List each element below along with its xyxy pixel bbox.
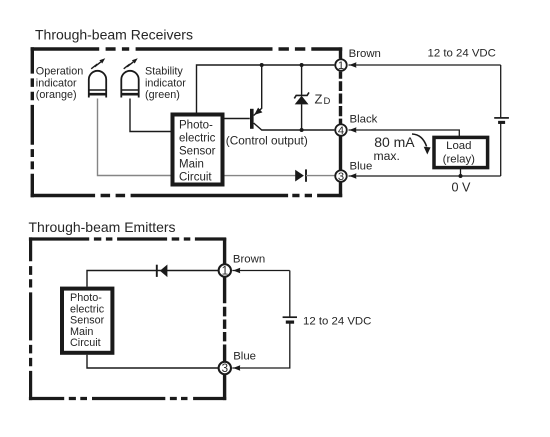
transistor collector lead (254, 123, 335, 130)
svg-text:12 to 24 VDC: 12 to 24 VDC (303, 316, 371, 328)
svg-text:max.: max. (374, 149, 400, 163)
receiver enclosure bottom border (dash-dot-dot) (31, 194, 343, 197)
svg-text:3: 3 (222, 362, 228, 375)
emitter enclosure bottom border (dash-dot-dot) (29, 397, 226, 400)
photoelectric sensor main circuit box (receiver) (173, 115, 223, 185)
receiver enclosure right border segment between terminals 4 and 3 (339, 136, 342, 170)
diode D2 (emitter) triangle pointing left (160, 265, 168, 278)
LED lamp: stability indicator (green) (121, 58, 140, 97)
zener diode ZD triangle (295, 96, 309, 105)
svg-text:0 V: 0 V (452, 181, 472, 195)
terminal 3 (Blue) (335, 170, 347, 182)
photoelectric sensor main circuit box (emitter) (62, 289, 112, 353)
diode D2 (emitter) cathode bar (156, 265, 158, 277)
svg-text:(relay): (relay) (443, 154, 475, 166)
wire from stability indicator down and right to main circuit (130, 99, 171, 132)
load (relay) box (434, 137, 488, 167)
svg-text:(green): (green) (145, 89, 180, 101)
zener diode ZD cathode bar (z-shape) (294, 92, 309, 98)
junction dot at zener bottom (300, 128, 304, 132)
wire from terminal 4 to load with arrowhead (349, 130, 460, 137)
terminal 3 emitter (Blue) (219, 362, 231, 374)
svg-text:Through-beam Emitters: Through-beam Emitters (29, 219, 176, 235)
svg-text:(Control output): (Control output) (226, 134, 308, 148)
curved arrow for load current (412, 134, 427, 147)
svg-text:electric: electric (70, 303, 105, 315)
zener diode ZD vertical wires (301, 65, 303, 130)
wire from main circuit top up and right to terminal 1 rail (197, 65, 335, 113)
svg-text:1: 1 (222, 265, 228, 278)
emitter enclosure top border (dash-dot-dot) (29, 237, 226, 240)
junction dot at zener top (300, 63, 304, 67)
svg-text:Brown: Brown (349, 48, 381, 60)
svg-text:D: D (324, 96, 331, 107)
right supply rail down to battery (500, 65, 502, 118)
terminal 4 (Black) (335, 124, 347, 136)
receiver enclosure right border segment below terminal 3 (339, 183, 342, 198)
svg-text:3: 3 (338, 171, 344, 183)
svg-text:Operation: Operation (36, 66, 83, 78)
LED lamp: operation indicator (orange) (88, 58, 107, 97)
battery B2 (emitter) negative plate (286, 321, 294, 324)
battery B2 lower wire to terminal 3 (232, 322, 289, 368)
svg-text:Stability: Stability (145, 66, 183, 78)
battery B2 upper wire (289, 271, 291, 318)
battery B2 (emitter) positive plate (283, 316, 297, 318)
emitter enclosure right border below terminal 3 (223, 375, 226, 400)
svg-text:indicator: indicator (145, 77, 186, 89)
junction dot load/0V rail (459, 174, 463, 178)
svg-text:(orange): (orange) (36, 89, 77, 101)
svg-text:Sensor: Sensor (70, 315, 105, 327)
emitter enclosure right border dashed between terminals (223, 277, 226, 361)
svg-text:80 mA: 80 mA (374, 134, 415, 150)
wire: base lead from main circuit to transistor (225, 118, 250, 120)
svg-text:Photo-: Photo- (70, 292, 102, 304)
svg-text:Circuit: Circuit (179, 172, 212, 184)
transistor Q1 (PNP control output) base bar (250, 109, 254, 129)
0V rail to terminal 3 with arrowhead (349, 175, 501, 177)
svg-text:Circuit: Circuit (70, 337, 101, 349)
receiver enclosure right border dashed segment between terminals 1 and 4 (339, 72, 342, 125)
wire from diode to terminal 3 (gray) (306, 175, 335, 177)
svg-text:Blue: Blue (233, 350, 256, 362)
wire from battery to emitter terminal 1 with arrowhead (232, 270, 289, 272)
svg-text:Main: Main (70, 326, 93, 338)
receiver enclosure top border (dash-dot-dot) (31, 47, 343, 50)
battery B1 (receiver) positive plate (494, 117, 509, 119)
svg-text:Photo-: Photo- (179, 119, 213, 131)
svg-text:electric: electric (179, 132, 216, 144)
svg-text:indicator: indicator (36, 77, 77, 89)
transistor emitter lead with arrow into base (PNP) (254, 65, 262, 116)
battery B1 (receiver) negative plate (498, 121, 505, 124)
svg-text:Load: Load (446, 140, 471, 152)
svg-text:1: 1 (338, 60, 344, 72)
receiver enclosure left border (dash-dot-dot) (31, 47, 34, 197)
receiver enclosure right border segment above terminal 1 (339, 47, 342, 58)
svg-text:Sensor: Sensor (179, 146, 216, 158)
junction dot at emitter/top rail (260, 63, 264, 67)
svg-text:Blue: Blue (350, 161, 373, 173)
svg-text:12 to 24 VDC: 12 to 24 VDC (428, 48, 496, 60)
wire from terminal 1 left through diode and down into main circuit (87, 271, 218, 287)
svg-text:Brown: Brown (233, 253, 265, 265)
svg-text:Z: Z (315, 92, 323, 107)
battery B1 lower wire down to 0V rail (500, 122, 502, 176)
wire from load bottom to 0V rail (460, 168, 462, 176)
svg-text:Main: Main (179, 159, 204, 171)
emitter enclosure left border (dash-dot-dot) (29, 237, 32, 400)
wire from main circuit bottom to terminal 3 (87, 355, 218, 368)
terminal 1 emitter (Brown) (219, 264, 231, 276)
wire from operation indicator down and right to main circuit (gray) (98, 99, 171, 176)
wire from main circuit right to diode (gray) (225, 175, 297, 177)
emitter enclosure right border above terminal 1 (223, 238, 226, 264)
svg-text:Black: Black (350, 114, 378, 126)
svg-text:Through-beam Receivers: Through-beam Receivers (35, 27, 193, 43)
terminal 1 (Brown) (335, 59, 347, 71)
wire from supply to terminal 1 with arrowhead (349, 64, 501, 66)
diode D1 on blue line (triangle + cathode bar) (295, 170, 304, 182)
svg-text:4: 4 (338, 125, 344, 137)
